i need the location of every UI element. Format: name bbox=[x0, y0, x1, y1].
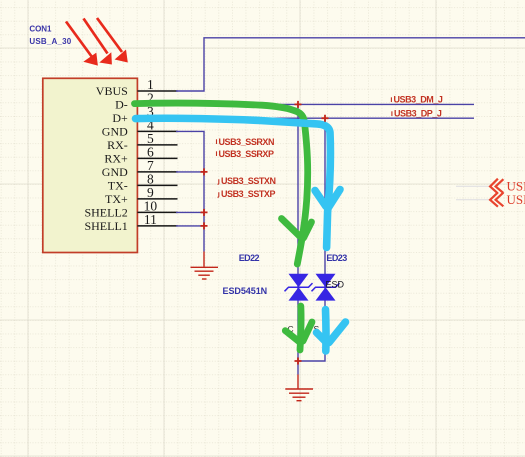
svg-text:GND: GND bbox=[102, 124, 128, 138]
svg-text:USB3_DP_J: USB3_DP_J bbox=[394, 109, 442, 119]
svg-text:USB3_SSTXP: USB3_SSTXP bbox=[221, 189, 275, 199]
svg-text:USB: USB bbox=[507, 192, 525, 207]
svg-text:USB3_SSRXN: USB3_SSRXN bbox=[219, 137, 275, 147]
svg-text:D+: D+ bbox=[112, 111, 128, 125]
svg-text:SHELL2: SHELL2 bbox=[84, 205, 127, 219]
svg-text:11: 11 bbox=[144, 212, 157, 227]
svg-text:D-: D- bbox=[115, 97, 128, 111]
svg-text:VBUS: VBUS bbox=[96, 84, 128, 98]
svg-text:USB_A_30: USB_A_30 bbox=[29, 37, 71, 46]
svg-text:RX-: RX- bbox=[107, 138, 128, 152]
svg-text:ESD: ESD bbox=[326, 280, 345, 290]
svg-text:ED22: ED22 bbox=[239, 253, 260, 263]
svg-text:ED23: ED23 bbox=[326, 253, 347, 263]
svg-text:TX+: TX+ bbox=[105, 192, 128, 206]
svg-text:ESD5451N: ESD5451N bbox=[223, 286, 268, 296]
svg-text:TX-: TX- bbox=[108, 178, 128, 192]
svg-text:USB3_SSRXP: USB3_SSRXP bbox=[219, 149, 274, 159]
svg-text:USB3_SSTXN: USB3_SSTXN bbox=[221, 176, 276, 186]
svg-text:GND: GND bbox=[102, 165, 128, 179]
svg-text:SHELL1: SHELL1 bbox=[84, 219, 127, 233]
svg-text:USB3_DM_J: USB3_DM_J bbox=[394, 95, 443, 105]
svg-text:RX+: RX+ bbox=[104, 151, 128, 165]
svg-text:CON1: CON1 bbox=[29, 24, 52, 33]
